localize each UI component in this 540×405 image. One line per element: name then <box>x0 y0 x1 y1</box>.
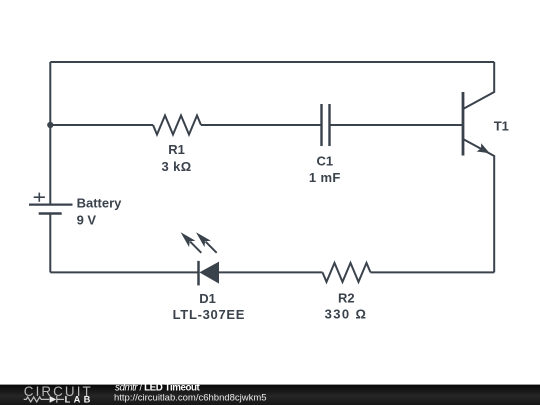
wire left vertical lower (battery - down) <box>49 214 51 273</box>
LED D1 <box>181 232 219 285</box>
svg-text:1 mF: 1 mF <box>309 170 341 185</box>
capacitor C1 <box>322 104 330 146</box>
wire left vertical upper (battery + to top rail) <box>49 62 51 205</box>
svg-text:C1: C1 <box>316 153 333 168</box>
svg-text:Battery: Battery <box>77 196 123 211</box>
footer bar <box>0 385 540 405</box>
wire middle rail left segment <box>50 124 153 126</box>
resistor R2 <box>323 263 371 282</box>
svg-text:R1: R1 <box>168 142 185 157</box>
svg-text:330 Ω: 330 Ω <box>325 307 368 322</box>
node junction dot <box>47 122 53 128</box>
battery V1 plates <box>29 193 73 214</box>
svg-text:3 kΩ: 3 kΩ <box>162 159 192 174</box>
svg-text:D1: D1 <box>199 291 216 306</box>
wire top rail <box>50 61 494 63</box>
wire bottom rail left segment <box>50 271 198 273</box>
wire LED to R2 <box>219 271 323 273</box>
svg-text:http://circuitlab.com/c6hbnd8c: http://circuitlab.com/c6hbnd8cjwkm5 <box>114 393 267 404</box>
svg-text:R2: R2 <box>338 291 355 306</box>
wire C1 to base <box>330 124 464 126</box>
svg-text:T1: T1 <box>494 119 509 134</box>
wire R2 to right vertical <box>371 271 495 273</box>
svg-text:9 V: 9 V <box>77 213 97 228</box>
transistor T1 <box>463 62 494 272</box>
svg-text:LTL-307EE: LTL-307EE <box>173 307 246 322</box>
wire R1 to C1 <box>201 124 322 126</box>
resistor R1 <box>153 116 201 135</box>
footer CircuitLab logo <box>24 384 94 404</box>
svg-text:LAB: LAB <box>65 394 94 404</box>
